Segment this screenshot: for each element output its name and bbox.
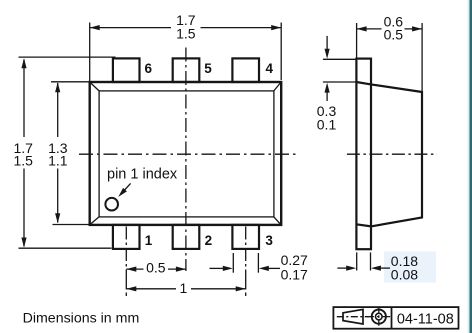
svg-text:0.17: 0.17: [281, 266, 308, 282]
svg-text:2: 2: [205, 233, 213, 248]
svg-text:4: 4: [266, 61, 274, 76]
svg-text:Dimensions in mm: Dimensions in mm: [23, 311, 140, 327]
svg-text:0.5: 0.5: [384, 27, 404, 43]
svg-text:0.1: 0.1: [317, 116, 337, 132]
svg-text:1.5: 1.5: [13, 153, 33, 169]
svg-text:6: 6: [145, 61, 153, 76]
svg-text:5: 5: [204, 61, 212, 76]
svg-text:0.08: 0.08: [391, 266, 418, 282]
svg-text:04-11-08: 04-11-08: [397, 312, 454, 328]
svg-text:pin 1 index: pin 1 index: [107, 167, 178, 183]
svg-text:1.1: 1.1: [48, 153, 68, 169]
svg-text:1: 1: [180, 280, 188, 296]
svg-text:1: 1: [145, 233, 153, 248]
svg-text:0.5: 0.5: [146, 260, 166, 276]
svg-text:1.5: 1.5: [176, 25, 196, 41]
svg-text:3: 3: [265, 233, 273, 248]
